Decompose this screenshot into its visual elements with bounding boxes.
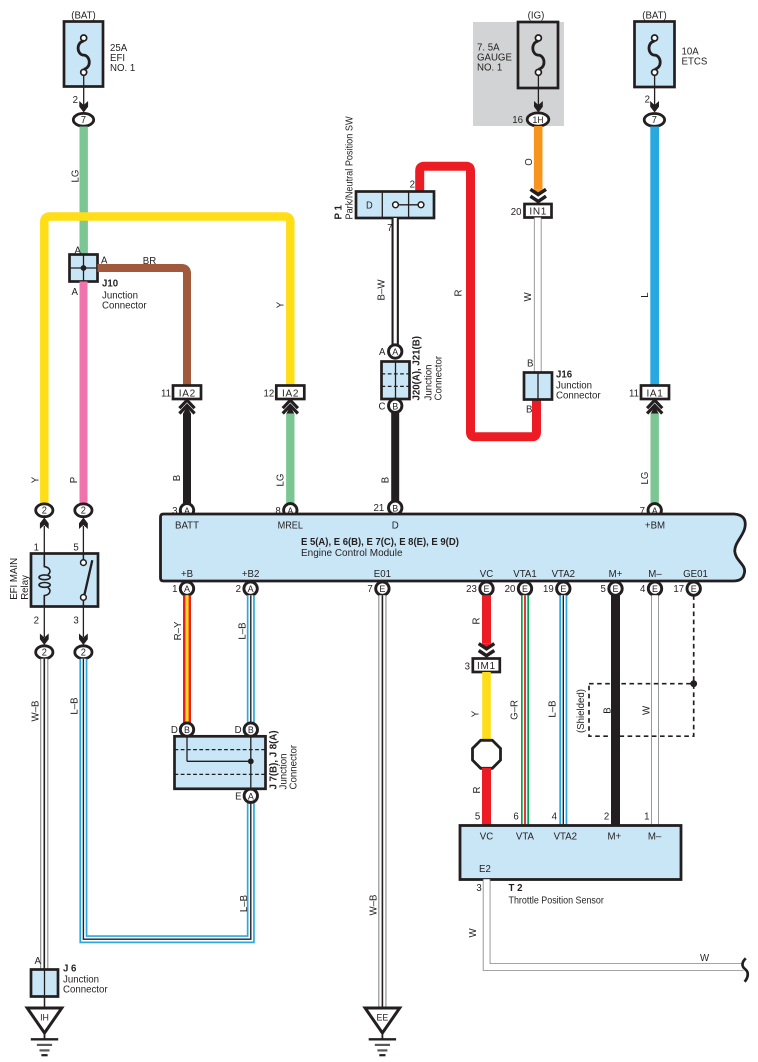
- svg-text:12: 12: [264, 388, 275, 399]
- ECM terminal 21 D circle B: [374, 501, 402, 514]
- svg-text:A: A: [379, 347, 386, 358]
- wire P from J10 to EFI relay pin 5 oval: [69, 282, 84, 504]
- wire break squiggle: [742, 958, 747, 982]
- EFI MAIN relay: [9, 554, 98, 607]
- svg-text:EE: EE: [377, 1012, 389, 1022]
- T2 pin 3 label: [476, 883, 482, 894]
- relay pin labels 2 and 3: [34, 615, 80, 626]
- svg-text:5: 5: [475, 811, 481, 822]
- wire L-B from ECM +B2 to J7: [237, 595, 251, 723]
- fuse 25A EFI NO. 1 (BAT): [64, 10, 136, 86]
- svg-text:R: R: [471, 618, 482, 625]
- svg-text:VTA: VTA: [516, 831, 534, 842]
- ECM terminal 5 M+ circle E: [601, 582, 623, 595]
- svg-text:L–B: L–B: [237, 622, 248, 639]
- svg-text:B: B: [380, 476, 391, 483]
- svg-text:E: E: [235, 791, 242, 802]
- svg-text:B: B: [248, 725, 254, 735]
- svg-text:BATT: BATT: [175, 520, 199, 531]
- svg-text:20: 20: [511, 207, 522, 218]
- svg-text:(IG): (IG): [528, 10, 545, 21]
- svg-text:J 6: J 6: [63, 963, 77, 974]
- connector 3 IM1: [465, 659, 500, 673]
- svg-text:+BM: +BM: [645, 520, 665, 531]
- svg-text:2: 2: [236, 584, 242, 595]
- svg-text:P: P: [69, 476, 80, 483]
- svg-text:2: 2: [410, 179, 416, 190]
- svg-text:2: 2: [81, 505, 86, 516]
- connector 11 IA1: [629, 386, 669, 415]
- svg-text:17: 17: [673, 584, 684, 595]
- svg-text:VTA2: VTA2: [554, 831, 578, 842]
- svg-text:R: R: [453, 290, 464, 297]
- pin 2 of fuse ETCS: [645, 75, 659, 112]
- junction terminal B of J21: [379, 399, 402, 412]
- svg-text:23: 23: [466, 584, 477, 595]
- svg-text:7: 7: [652, 115, 657, 126]
- svg-text:IA2: IA2: [282, 388, 299, 399]
- svg-text:1: 1: [172, 584, 178, 595]
- wire W-B from relay pin 2 to J6: [30, 659, 44, 970]
- wire B from 11 IA2 to ECM BATT: [172, 414, 187, 504]
- junction connector J6: [31, 956, 108, 1008]
- svg-text:B: B: [172, 474, 183, 481]
- svg-text:Relay: Relay: [20, 575, 31, 600]
- pin 7 of P1: [387, 223, 393, 234]
- svg-text:W–B: W–B: [30, 700, 41, 721]
- svg-text:ETCS: ETCS: [682, 56, 708, 67]
- svg-text:5: 5: [601, 584, 607, 595]
- svg-text:J10: J10: [102, 278, 119, 289]
- svg-text:19: 19: [543, 584, 554, 595]
- J7 terminal D circle B (right): [235, 723, 258, 736]
- svg-text:A: A: [184, 584, 191, 594]
- svg-text:B: B: [602, 707, 613, 714]
- svg-text:21: 21: [374, 503, 385, 514]
- connector oval 2 (relay pin 3): [75, 607, 92, 659]
- svg-text:D: D: [171, 725, 178, 736]
- svg-text:L–B: L–B: [239, 895, 250, 912]
- svg-text:+B: +B: [181, 569, 193, 580]
- svg-text:VTA2: VTA2: [552, 569, 576, 580]
- svg-text:Y: Y: [470, 710, 481, 717]
- svg-text:A: A: [392, 347, 399, 357]
- wire L-B from ECM VTA2 to T2 VTA2: [547, 595, 563, 826]
- connector oval 7 below F1: [73, 113, 93, 126]
- relay pin labels 1 and 5: [34, 542, 80, 553]
- svg-text:E: E: [379, 584, 385, 594]
- svg-text:M+: M+: [609, 569, 623, 580]
- svg-text:3: 3: [73, 615, 79, 626]
- svg-text:M+: M+: [607, 831, 621, 842]
- svg-text:Connector: Connector: [102, 300, 147, 311]
- wire B-W from P1 pin 7 to J20: [376, 218, 395, 345]
- label A above J10: [75, 245, 82, 256]
- svg-text:A: A: [248, 584, 255, 594]
- svg-text:G–R: G–R: [509, 700, 520, 720]
- wire R from octagon to T2 VC: [472, 768, 487, 826]
- ECM Engine Control Module: [161, 514, 746, 581]
- svg-text:Connector: Connector: [556, 390, 601, 401]
- junction connector J10: [70, 255, 148, 312]
- fuse 7.5A GAUGE NO. 1 (IG): [477, 10, 558, 88]
- octagon splice: [473, 740, 501, 768]
- svg-text:D: D: [235, 725, 242, 736]
- svg-text:6: 6: [513, 811, 519, 822]
- svg-text:(BAT): (BAT): [71, 10, 96, 21]
- svg-text:NO. 1: NO. 1: [477, 62, 503, 73]
- pin 16 of fuse GAUGE: [512, 75, 543, 126]
- wire W from T2 E2 to right edge: [468, 879, 744, 967]
- svg-text:5: 5: [73, 542, 79, 553]
- ECM terminal 8 MREL circle A: [275, 504, 297, 517]
- svg-text:B: B: [526, 404, 533, 415]
- svg-text:16: 16: [512, 115, 523, 126]
- svg-text:E01: E01: [374, 569, 392, 580]
- svg-text:IH: IH: [40, 1012, 49, 1022]
- svg-text:2: 2: [42, 647, 47, 658]
- svg-text:MREL: MREL: [278, 520, 304, 532]
- ECM terminal 20 VTA1 circle E: [505, 582, 532, 595]
- svg-text:NO. 1: NO. 1: [110, 63, 136, 74]
- svg-text:W–B: W–B: [368, 894, 379, 915]
- svg-text:B: B: [392, 401, 398, 411]
- ECM terminal 7 E01 circle E: [367, 582, 389, 595]
- pin 2 of fuse F1: [73, 75, 88, 112]
- svg-text:A: A: [72, 287, 79, 298]
- svg-text:L–B: L–B: [547, 700, 558, 717]
- wire B from J21 to ECM D: [380, 413, 395, 502]
- svg-text:Park/Neutral Position SW: Park/Neutral Position SW: [344, 116, 356, 220]
- ECM terminal 19 VTA2 circle E: [543, 582, 570, 595]
- svg-text:M–: M–: [648, 831, 662, 842]
- svg-text:Y: Y: [275, 301, 286, 308]
- J7 terminal D circle B (left): [171, 723, 194, 736]
- svg-text:E: E: [484, 584, 490, 594]
- connector oval 2 (relay pin 1): [36, 504, 53, 554]
- svg-text:2: 2: [81, 647, 86, 658]
- svg-text:1: 1: [34, 542, 40, 553]
- svg-text:(BAT): (BAT): [642, 10, 667, 21]
- svg-text:W: W: [641, 705, 652, 715]
- svg-text:E2: E2: [479, 864, 491, 875]
- connector oval 7 below ETCS fuse: [644, 114, 664, 127]
- junction connector J7(B), J8(A): [175, 730, 300, 789]
- svg-text:3: 3: [476, 883, 482, 894]
- svg-text:+B2: +B2: [242, 569, 260, 580]
- svg-text:4: 4: [640, 584, 646, 595]
- svg-text:A: A: [248, 791, 255, 801]
- svg-text:E: E: [652, 584, 658, 594]
- wire W from IN1 to J16: [523, 218, 538, 373]
- connector 12 IA2: [264, 386, 305, 415]
- svg-text:D: D: [366, 200, 373, 211]
- svg-text:3: 3: [465, 661, 471, 672]
- svg-text:11: 11: [629, 388, 639, 399]
- instrument panel junction block (gray): [473, 22, 564, 126]
- svg-text:L–B: L–B: [69, 697, 80, 714]
- ECM terminal 2 +B2 circle A: [236, 582, 258, 595]
- svg-text:M–: M–: [648, 569, 662, 580]
- svg-text:T 2: T 2: [509, 883, 523, 894]
- svg-text:11: 11: [161, 388, 171, 399]
- svg-text:Throttle Position Sensor: Throttle Position Sensor: [509, 895, 605, 907]
- svg-text:W: W: [523, 292, 534, 302]
- svg-text:LG: LG: [70, 169, 81, 182]
- svg-text:O: O: [524, 158, 535, 166]
- svg-text:IM1: IM1: [477, 661, 496, 672]
- T2 name label: [509, 883, 605, 907]
- svg-text:C: C: [379, 401, 386, 412]
- wire O from 1H to connector 20 IN1: [524, 126, 546, 201]
- svg-text:W: W: [700, 953, 710, 964]
- junction connector J20(A), J21(B): [382, 336, 445, 400]
- fuse 10A ETCS (BAT): [635, 10, 708, 87]
- wire BR from J10 to connector 11 IA2: [98, 256, 188, 386]
- svg-text:LG: LG: [640, 471, 651, 484]
- svg-text:VTA1: VTA1: [513, 569, 537, 580]
- ground EE: [365, 1008, 400, 1055]
- svg-text:Connector: Connector: [63, 984, 108, 995]
- svg-text:J16: J16: [556, 369, 573, 380]
- svg-text:7: 7: [81, 115, 86, 126]
- svg-text:P 1: P 1: [333, 205, 344, 220]
- wire GE01 shield drain (dashed): [693, 595, 695, 683]
- svg-text:BR: BR: [143, 256, 156, 267]
- ECM terminal 3 BATT circle A: [172, 504, 194, 517]
- switch P1 Park/Neutral Position SW: [333, 116, 434, 220]
- svg-text:2: 2: [42, 505, 47, 516]
- connector oval 2 (relay pin 5): [75, 504, 92, 554]
- wire R from ECM VC to IM1: [471, 595, 494, 655]
- svg-text:2: 2: [604, 811, 610, 822]
- svg-text:R–Y: R–Y: [173, 621, 184, 640]
- svg-text:(Shielded): (Shielded): [576, 689, 587, 733]
- svg-text:2: 2: [73, 95, 79, 106]
- J8 terminal E circle A (bottom): [235, 789, 257, 802]
- wire LG from fuse F1 to J10: [70, 127, 83, 257]
- ECM terminal 4 M- circle E: [640, 582, 662, 595]
- wire Y from IM1 to octagon splice: [470, 672, 486, 741]
- wire R from P/N switch pin 2 to J16: [410, 166, 537, 437]
- svg-text:GE01: GE01: [683, 569, 708, 580]
- junction terminal A of J20: [379, 345, 402, 358]
- junction connector J16: [524, 369, 601, 415]
- svg-text:LG: LG: [275, 473, 286, 486]
- wire W from ECM M- to T2 M-: [641, 595, 655, 826]
- svg-text:2: 2: [34, 615, 40, 626]
- svg-text:E: E: [560, 584, 566, 594]
- svg-text:J20(A), J21(B): J20(A), J21(B): [411, 336, 422, 400]
- wire R-Y from ECM +B to J7: [173, 595, 187, 723]
- wire LG from 11 IA1 to ECM +BM: [640, 414, 655, 504]
- connector oval 2 (relay pin 2): [36, 607, 53, 659]
- connector 20 IN1: [511, 204, 552, 218]
- svg-text:B: B: [527, 358, 534, 369]
- svg-text:D: D: [392, 520, 399, 531]
- wire G-R from ECM VTA1 to T2 VTA: [509, 595, 525, 826]
- svg-text:4: 4: [552, 811, 558, 822]
- ECM terminal 23 VC circle E: [466, 582, 493, 595]
- svg-text:W: W: [468, 928, 479, 938]
- svg-text:20: 20: [505, 584, 516, 595]
- svg-text:E: E: [522, 584, 528, 594]
- svg-text:A: A: [35, 956, 42, 967]
- svg-text:IN1: IN1: [529, 207, 547, 218]
- wire W-B from ECM E01 to ground EE: [368, 595, 382, 1008]
- svg-text:B–W: B–W: [376, 279, 387, 300]
- svg-text:Y: Y: [30, 476, 41, 483]
- ground IH: [27, 1008, 62, 1055]
- svg-text:1H: 1H: [532, 115, 543, 125]
- wire Y from EFI relay pin 1 oval up and over to connector 12 IA2: [30, 217, 290, 504]
- svg-text:Connector: Connector: [288, 744, 299, 789]
- svg-text:2: 2: [645, 94, 651, 105]
- svg-text:B: B: [184, 725, 190, 735]
- svg-text:IA2: IA2: [179, 388, 196, 399]
- svg-text:E 5(A), E 6(B), E 7(C), E 8(E): E 5(A), E 6(B), E 7(C), E 8(E), E 9(D): [301, 537, 459, 548]
- svg-text:EFI MAIN: EFI MAIN: [9, 558, 20, 600]
- svg-text:VC: VC: [480, 569, 493, 580]
- svg-text:B: B: [392, 503, 398, 513]
- svg-text:Engine Control Module: Engine Control Module: [301, 548, 403, 559]
- ECM terminal 1 +B circle A: [172, 582, 194, 595]
- svg-text:IA1: IA1: [646, 388, 663, 399]
- svg-text:VC: VC: [480, 831, 493, 842]
- wire B from ECM M+ to T2 M+: [602, 595, 615, 826]
- svg-text:L: L: [640, 292, 651, 298]
- svg-text:7: 7: [367, 584, 373, 595]
- svg-text:E: E: [691, 584, 697, 594]
- sensor T2 Throttle Position Sensor: [460, 826, 681, 880]
- svg-text:E: E: [613, 584, 619, 594]
- wire L from ETCS fuse to 11 IA1: [640, 127, 655, 387]
- connector 11 IA2: [161, 386, 201, 415]
- shield box (Shielded): [576, 680, 697, 736]
- wire LG from 12 IA2 to ECM MREL: [275, 414, 290, 504]
- svg-text:1: 1: [644, 811, 650, 822]
- svg-text:Connector: Connector: [433, 355, 444, 400]
- wire L-B from relay pin 3 looping to J7/J8 terminal A: [69, 659, 250, 940]
- svg-text:R: R: [472, 787, 483, 794]
- ECM terminal 17 GE01 circle E: [673, 582, 700, 595]
- ECM terminal 7 +BM circle A: [640, 504, 662, 517]
- connector oval 1H: [527, 113, 549, 126]
